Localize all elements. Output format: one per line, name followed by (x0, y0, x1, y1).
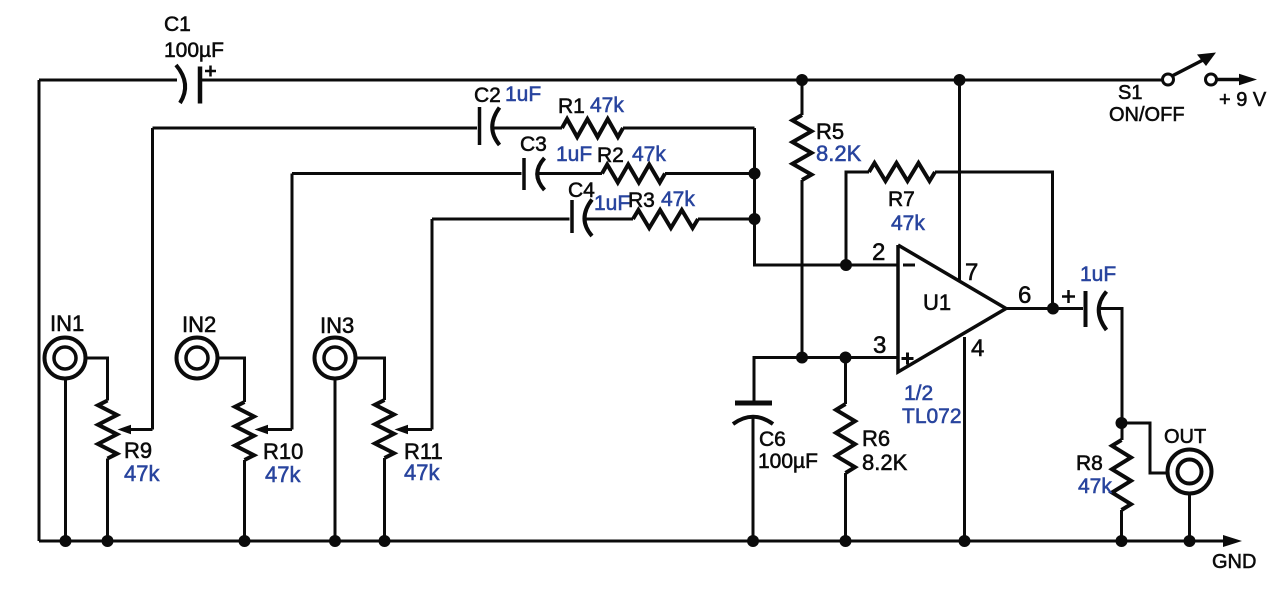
connector IN2 jack (177, 312, 218, 379)
potentiometer R9 (98, 401, 160, 542)
svg-text:8.2K: 8.2K (862, 450, 908, 475)
wire pin7 from rail (958, 80, 961, 281)
svg-text:R8: R8 (1076, 452, 1103, 475)
connector IN3 jack (315, 313, 356, 379)
svg-text:GND: GND (1212, 551, 1256, 573)
resistor R6 (836, 358, 908, 542)
node gnd IN3 (329, 535, 341, 547)
svg-text:47k: 47k (891, 212, 925, 235)
svg-text:100µF: 100µF (164, 39, 224, 62)
wire IN3 ground stub (334, 379, 337, 542)
svg-text:C2: C2 (474, 84, 501, 107)
svg-text:IN1: IN1 (50, 311, 84, 336)
svg-text:+ 9 V: + 9 V (1219, 89, 1267, 111)
wire IN3 to R11 (356, 358, 385, 400)
wire R9 wiper riser (151, 128, 154, 430)
resistor R7 feedback loop (846, 163, 1053, 308)
svg-text:R6: R6 (862, 426, 890, 451)
node gnd R8 (1116, 535, 1128, 547)
node gnd R11 (379, 535, 391, 547)
svg-text:R3: R3 (628, 189, 655, 212)
node pin7 rail junction (954, 74, 966, 86)
wire row2 right (665, 172, 755, 175)
switch S1 (1109, 53, 1217, 127)
svg-text:IN2: IN2 (182, 312, 216, 337)
capacitor C6 (733, 403, 818, 541)
wire row3 right (698, 218, 755, 221)
wire cap to R8 node (1100, 309, 1122, 441)
svg-text:1uF: 1uF (556, 143, 592, 166)
svg-text:R1: R1 (558, 95, 585, 118)
svg-text:OUT: OUT (1164, 426, 1206, 448)
wire top rail C1 to S1 (200, 79, 1162, 82)
potentiometer R11 (375, 400, 443, 541)
node R5 bottom junction (796, 352, 808, 364)
wire row1 left (153, 127, 478, 130)
node gnd pin4 (959, 535, 971, 547)
svg-text:2: 2 (872, 239, 885, 266)
potentiometer R10 (235, 402, 303, 541)
wire row2 mid (538, 172, 602, 175)
wire IN1 to R9 (86, 358, 108, 401)
node gnd OUT (1184, 535, 1196, 547)
node gnd R9 (102, 535, 114, 547)
svg-text:C4: C4 (568, 179, 595, 202)
svg-text:1uF: 1uF (505, 83, 541, 106)
wire row1 right (623, 127, 755, 130)
svg-text:ON/OFF: ON/OFF (1109, 104, 1185, 126)
node R5 top rail (796, 74, 808, 86)
wire IN2 to R10 (218, 358, 245, 402)
node junction row3 (749, 213, 761, 225)
svg-text:47k: 47k (590, 94, 624, 117)
svg-text:100µF: 100µF (758, 450, 818, 473)
svg-text:R9: R9 (124, 438, 152, 463)
node gnd R6 (840, 535, 852, 547)
svg-text:1uF: 1uF (1080, 263, 1116, 286)
svg-text:R10: R10 (263, 439, 303, 464)
svg-text:C3: C3 (520, 133, 547, 156)
svg-text:3: 3 (873, 332, 886, 359)
resistor R5 (793, 80, 862, 358)
svg-text:1uF: 1uF (594, 192, 630, 215)
node gnd R10 (239, 535, 251, 547)
svg-text:7: 7 (965, 259, 978, 286)
svg-text:R2: R2 (597, 144, 624, 167)
resistor R1 (558, 94, 624, 137)
wire R10 wiper riser (291, 174, 294, 430)
wire row1 mid (493, 127, 562, 130)
wire op-amp output (1006, 307, 1083, 310)
ground arrow GND (1212, 535, 1256, 573)
connector OUT jack (1164, 426, 1212, 541)
resistor R8 (1076, 440, 1131, 541)
wire left border vertical (38, 80, 41, 541)
svg-text:U1: U1 (923, 290, 951, 315)
node pin2 junction (840, 259, 852, 271)
capacitor C2 (474, 83, 541, 145)
svg-text:47k: 47k (632, 143, 666, 166)
svg-text:C6: C6 (759, 428, 786, 451)
wire +9V arrow (1217, 74, 1267, 111)
wire node to OUT jack (1122, 423, 1168, 473)
node gnd C6 (747, 535, 759, 547)
svg-text:TL072: TL072 (902, 405, 962, 428)
svg-text:47k: 47k (1078, 475, 1112, 498)
node junction row2 (749, 168, 761, 180)
op-amp U1 (872, 239, 1031, 428)
resistor R3 (628, 188, 698, 228)
wire IN1 ground stub (64, 379, 67, 542)
capacitor C1 (164, 13, 224, 104)
wire R11 wiper riser (431, 219, 434, 430)
svg-text:S1: S1 (1118, 82, 1142, 104)
node output junction (1047, 303, 1059, 315)
svg-text:47k: 47k (661, 188, 695, 211)
wire row3 mid (586, 218, 633, 221)
wire pin4 to ground rail (963, 337, 966, 541)
wire ground rail (39, 540, 1224, 543)
svg-text:47k: 47k (265, 462, 301, 487)
capacitor C5 output 1uF (1062, 263, 1116, 330)
svg-text:47k: 47k (404, 460, 440, 485)
node gnd IN1 (60, 535, 72, 547)
svg-text:1/2: 1/2 (904, 382, 933, 405)
resistor R2 (597, 143, 666, 183)
wire top rail left of C1 (39, 79, 177, 82)
svg-text:47k: 47k (124, 461, 160, 486)
svg-text:6: 6 (1018, 282, 1031, 309)
svg-text:IN3: IN3 (320, 313, 354, 338)
wire row3 left (432, 218, 570, 221)
wire row2 left (292, 172, 522, 175)
capacitor C4 (568, 179, 630, 236)
wire summing vertical to pin2 (755, 128, 899, 265)
svg-text:4: 4 (971, 335, 984, 362)
svg-text:R7: R7 (888, 188, 915, 211)
node R6 top junction (840, 352, 852, 364)
wire pin3 line (754, 358, 898, 403)
connector IN1 jack (45, 311, 86, 379)
svg-text:8.2K: 8.2K (816, 141, 862, 166)
capacitor C3 (520, 133, 592, 190)
svg-text:C1: C1 (164, 13, 191, 36)
node R8 top junction (1116, 417, 1128, 429)
